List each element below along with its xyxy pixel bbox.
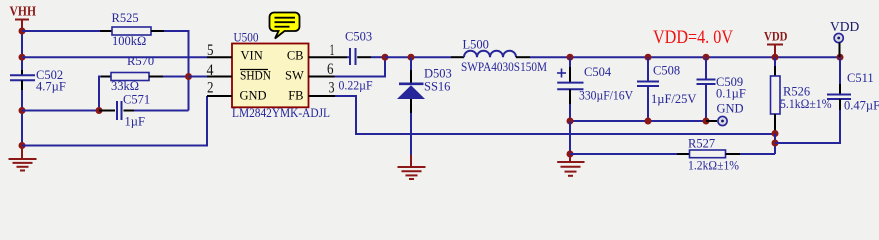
pin 4 stub: [207, 76, 232, 78]
wire C504 to bottom rail: [569, 104, 571, 121]
svg-text:VIN: VIN: [241, 49, 263, 63]
svg-text:C504: C504: [584, 65, 612, 79]
wire left rail upper: [21, 30, 23, 70]
wire GND rail to C571: [22, 110, 99, 112]
IC U500 LM2842: [232, 31, 330, 120]
svg-text:LM2842YMK-ADJL: LM2842YMK-ADJL: [232, 106, 330, 120]
wire C571 to SHDN node: [134, 110, 189, 112]
svg-text:5: 5: [207, 42, 214, 59]
resistor R570: [99, 54, 163, 111]
capacitor C502: [10, 68, 66, 94]
node C508 bottom junction: [645, 118, 652, 125]
svg-text:SW: SW: [285, 69, 304, 83]
svg-text:C511: C511: [847, 71, 874, 85]
capacitor C509: [697, 57, 746, 121]
wire diode to ground: [410, 113, 412, 156]
capacitor C503: [339, 30, 373, 93]
wire left rail lower: [21, 90, 23, 146]
svg-text:U500: U500: [234, 31, 259, 45]
svg-text:SHDN: SHDN: [240, 69, 271, 83]
capacitor C504 polarized: [557, 57, 633, 104]
svg-text:0.22µF: 0.22µF: [339, 78, 373, 92]
wire pin1 to C503: [347, 56, 349, 58]
wire C503 to SW node: [371, 56, 385, 58]
wire FB node vertical: [774, 134, 776, 155]
svg-text:L500: L500: [463, 38, 489, 52]
capacitor C571: [99, 93, 150, 129]
wire GND pin2 route: [22, 96, 207, 146]
wire FB route: [335, 96, 775, 134]
wire VHH to R525: [22, 30, 100, 32]
svg-text:R527: R527: [688, 137, 715, 151]
resistor R525: [100, 11, 164, 48]
inductor L500: [451, 38, 547, 75]
svg-text:R525: R525: [112, 11, 139, 25]
node FB junction upper: [772, 130, 779, 137]
wire pin6 to SW node: [335, 57, 386, 76]
ground C504: [557, 154, 584, 176]
node C511 top junction: [837, 54, 844, 61]
wire SHDN node to pin4: [189, 76, 208, 78]
svg-text:R570: R570: [127, 54, 154, 68]
svg-text:C503: C503: [345, 30, 372, 44]
svg-text:SS16: SS16: [424, 80, 450, 94]
svg-text:1µF/25V: 1µF/25V: [651, 92, 696, 106]
svg-text:0.47µF: 0.47µF: [844, 99, 879, 113]
node C508 top junction: [645, 54, 652, 61]
svg-text:33kΩ: 33kΩ: [111, 79, 139, 93]
pin 1 stub: [309, 56, 348, 58]
pin 6 stub: [309, 76, 335, 78]
wire R527 row left: [570, 153, 677, 155]
node diode junction: [408, 54, 415, 61]
pin 3 stub: [309, 95, 336, 97]
svg-text:D503: D503: [424, 66, 452, 80]
pin 2 stub: [207, 95, 232, 97]
svg-text:FB: FB: [288, 89, 303, 103]
ground left: [9, 146, 37, 171]
svg-text:4: 4: [207, 62, 214, 79]
ground diode: [398, 155, 426, 179]
node C509 bottom junction: [703, 118, 710, 125]
node C571 row junction: [19, 107, 26, 114]
svg-text:GND: GND: [717, 102, 744, 116]
resistor R527: [677, 137, 740, 173]
pin 5 stub: [207, 56, 232, 58]
svg-text:1: 1: [330, 42, 335, 59]
svg-text:1µF: 1µF: [125, 115, 145, 129]
wire R527 to FB node: [740, 153, 775, 155]
svg-text:CB: CB: [287, 49, 304, 63]
wire C504 gnd stem: [569, 121, 571, 154]
svg-text:VDD=4. 0V: VDD=4. 0V: [653, 28, 734, 48]
wire bottom gnd rail: [570, 120, 706, 122]
svg-text:5.1kΩ±1%: 5.1kΩ±1%: [780, 97, 832, 111]
node bottom left junction: [19, 142, 26, 149]
svg-text:330µF/16V: 330µF/16V: [579, 89, 633, 103]
node SHDN junction: [185, 73, 192, 80]
power port VDD right circle: [830, 19, 859, 57]
node FB junction lower: [772, 140, 779, 147]
wire R570 to SHDN node: [163, 76, 189, 78]
wire R525 to SHDN node: [164, 31, 189, 111]
wire C511 bottom route: [775, 110, 840, 143]
wire VIN row: [22, 56, 207, 58]
node C509 top junction: [703, 54, 710, 61]
svg-text:1.2kΩ±1%: 1.2kΩ±1%: [688, 158, 739, 172]
svg-text:100kΩ: 100kΩ: [112, 34, 146, 48]
capacitor C508: [637, 57, 696, 121]
resistor R526 vertical: [771, 57, 832, 134]
capacitor C511: [827, 57, 879, 112]
svg-text:VDD: VDD: [830, 19, 859, 34]
node SW junction: [382, 54, 389, 61]
svg-text:GND: GND: [240, 89, 267, 103]
power port VDD mid: [764, 30, 788, 58]
node C504 bottom junction: [567, 118, 574, 125]
svg-text:3: 3: [329, 80, 335, 97]
node R527 left junction: [567, 151, 574, 158]
node C504 top junction: [567, 54, 574, 61]
svg-text:C508: C508: [653, 64, 680, 78]
svg-text:4.7µF: 4.7µF: [36, 80, 66, 94]
svg-text:0.1µF: 0.1µF: [716, 87, 746, 101]
node VIN tap junction: [19, 54, 26, 61]
power port VHH: [10, 5, 37, 32]
diode D503: [397, 57, 452, 113]
svg-text:VDD: VDD: [764, 30, 788, 44]
comment bubble icon: [270, 13, 300, 39]
wire inductor to output rail: [530, 56, 840, 58]
svg-text:6: 6: [327, 61, 334, 78]
node VHH rail top junction: [19, 28, 26, 35]
svg-text:SWPA4030S150M: SWPA4030S150M: [461, 60, 547, 74]
port GND circle: [706, 102, 744, 126]
wire SW rail to inductor: [385, 56, 451, 58]
svg-text:C571: C571: [123, 93, 150, 107]
node C571 left junction: [96, 107, 103, 114]
node R526 top junction: [772, 54, 779, 61]
svg-text:VHH: VHH: [10, 5, 37, 20]
svg-text:2: 2: [207, 79, 214, 96]
